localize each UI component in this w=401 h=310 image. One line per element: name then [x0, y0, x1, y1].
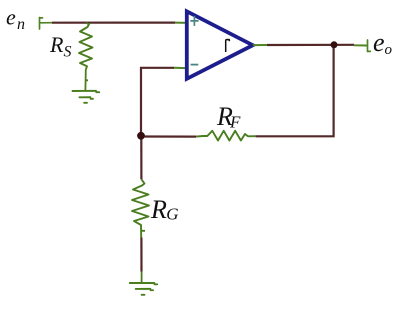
- op-amp - mark: [191, 64, 199, 66]
- wire: e_n to op-amp + input: [52, 22, 175, 24]
- svg-text:R: R: [49, 32, 64, 57]
- output terminal e_o: [368, 40, 371, 52]
- green lead to ground: [141, 272, 143, 284]
- wire: node down to RG: [140, 136, 142, 179]
- input terminal e_n: [40, 18, 53, 30]
- wire RS to ground: [85, 69, 88, 91]
- wire green lead + input: [175, 22, 190, 24]
- op-amp gamma glyph: [226, 40, 230, 53]
- svg-text:F: F: [229, 113, 241, 132]
- wire: RG to ground: [140, 238, 142, 272]
- svg-text:e: e: [373, 28, 385, 57]
- green output terminal lead: [354, 44, 367, 46]
- resistor RG: [132, 179, 149, 237]
- ground (below RS): [73, 91, 100, 103]
- svg-text:e: e: [6, 5, 16, 30]
- svg-text:S: S: [64, 43, 72, 60]
- svg-text:G: G: [166, 205, 178, 224]
- resistor RS: [79, 23, 93, 69]
- op-amp + mark: [190, 16, 198, 26]
- green lead - input: [174, 67, 190, 70]
- ground (below RG): [130, 283, 157, 295]
- svg-text:n: n: [17, 16, 25, 33]
- wire: output down to feedback rail: [256, 45, 334, 136]
- wire: RF to node: [141, 135, 196, 137]
- svg-text:R: R: [150, 195, 167, 224]
- junction node (inverting): [137, 132, 145, 140]
- resistor RF: [196, 131, 256, 141]
- svg-text:o: o: [385, 42, 393, 58]
- wire: inverting input from node: [141, 68, 174, 136]
- wire: output to terminal: [267, 44, 354, 46]
- junction output node: [331, 41, 338, 48]
- op-amp U1: [187, 11, 253, 79]
- op-amp output lead: [253, 44, 267, 46]
